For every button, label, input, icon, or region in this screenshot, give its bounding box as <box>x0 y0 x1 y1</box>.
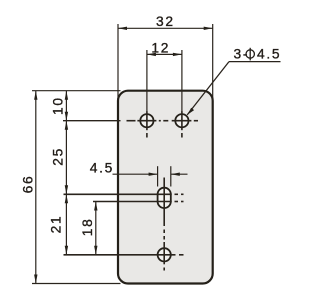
svg-text:3-: 3- <box>234 47 250 62</box>
dimension 12 extension lines <box>147 50 182 112</box>
slot (obround) <box>158 188 171 208</box>
centerline H2 vertical <box>181 111 183 137</box>
dimension 32 arrows <box>118 27 213 30</box>
slot centerline upper horizontal <box>64 193 184 195</box>
chain dimension line (10/25/21) <box>65 91 67 255</box>
phi symbol <box>246 48 254 61</box>
dimension 18 line <box>95 202 97 255</box>
hole H2 (top-right) <box>175 114 188 127</box>
hole H3 (bottom) <box>158 248 171 261</box>
dimension 32 extension lines <box>118 24 213 101</box>
svg-text:66: 66 <box>21 175 36 194</box>
hole H1 (top-left) <box>140 114 153 127</box>
slot centerline vertical <box>163 178 165 240</box>
leader line for 3-phi4.5 <box>187 62 280 115</box>
dimension 12 arrows <box>147 53 182 56</box>
dimension 66 arrows <box>34 91 37 284</box>
dimension 66 extension lines <box>32 91 121 284</box>
dimension 66 line <box>35 91 37 284</box>
svg-text:4.5: 4.5 <box>90 161 114 176</box>
dimension 18 arrows <box>94 202 97 255</box>
dimension 12 line <box>147 53 182 55</box>
dimension 4.5 lines <box>113 173 188 175</box>
plate outline <box>118 91 213 284</box>
svg-text:25: 25 <box>51 147 66 166</box>
svg-text:4.5: 4.5 <box>257 47 281 62</box>
svg-text:32: 32 <box>156 14 175 29</box>
dimension 4.5 extension lines <box>158 166 171 186</box>
svg-text:12: 12 <box>151 40 170 55</box>
leader arrowhead <box>187 108 194 115</box>
centerline H1 vertical <box>146 111 148 137</box>
extension line from hole row to chain dimension <box>63 120 121 122</box>
centerline H1 horizontal <box>127 120 169 122</box>
svg-text:18: 18 <box>80 217 95 236</box>
slot centerline lower horizontal <box>93 201 184 203</box>
dimension 4.5 arrows <box>149 173 180 176</box>
svg-text:21: 21 <box>49 215 64 234</box>
centerline H2 horizontal <box>172 120 198 122</box>
centerline H3 horizontal <box>64 254 184 256</box>
centerline H3 vertical <box>163 242 165 271</box>
dimension 32 line <box>118 27 213 29</box>
chain arrows at top (10) <box>65 91 68 255</box>
svg-text:10: 10 <box>51 96 66 115</box>
